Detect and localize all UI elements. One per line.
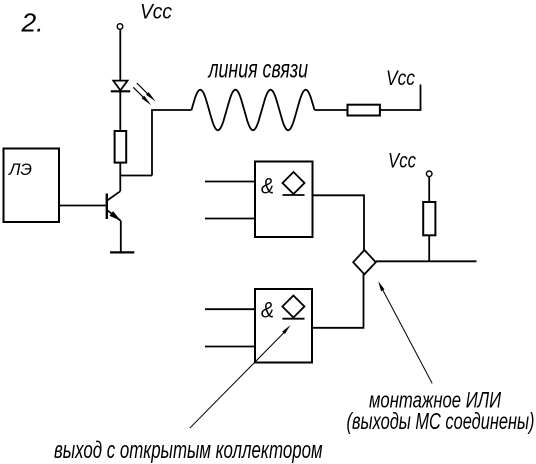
svg-text:Vcc: Vcc: [140, 0, 172, 24]
svg-text:ЛЭ: ЛЭ: [8, 160, 32, 179]
svg-text:2.: 2.: [20, 10, 43, 38]
svg-text:линия связи: линия связи: [207, 56, 308, 84]
svg-text:(выходы МС соединены): (выходы МС соединены): [347, 408, 535, 434]
svg-text:выход с открытым коллектором: выход с открытым коллектором: [54, 437, 323, 464]
svg-text:&: &: [261, 173, 274, 198]
svg-text:Vcc: Vcc: [386, 66, 415, 90]
svg-text:Vcc: Vcc: [388, 149, 416, 173]
svg-text:&: &: [261, 297, 274, 322]
